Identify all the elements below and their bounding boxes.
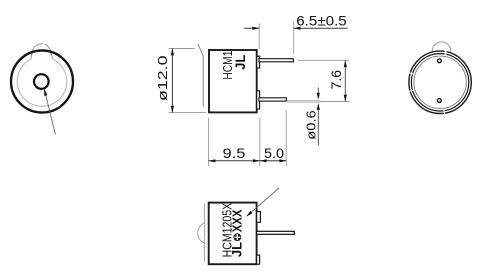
svg-text:XXX: XXX: [229, 209, 244, 232]
svg-text:6.5±0.5: 6.5±0.5: [296, 13, 347, 29]
svg-text:7.6: 7.6: [329, 70, 344, 90]
svg-text:9.5: 9.5: [223, 145, 246, 161]
svg-text:JL: JL: [229, 242, 245, 257]
svg-text:5.0: 5.0: [264, 145, 284, 161]
svg-text:ø0.6: ø0.6: [304, 110, 319, 140]
svg-text:JL: JL: [232, 54, 248, 69]
svg-text:ø12.0: ø12.0: [155, 55, 170, 101]
